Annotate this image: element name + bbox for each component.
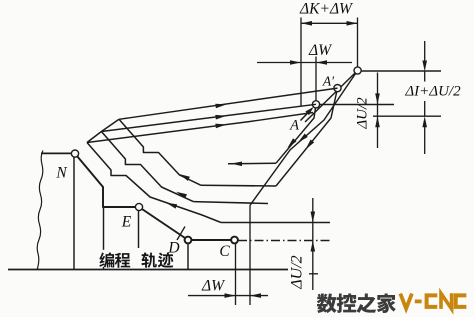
svg-text:A: A xyxy=(289,118,299,134)
dimension line ΔW top xyxy=(257,62,352,64)
return line pass inner corner to below A xyxy=(87,113,313,143)
chain line right of C xyxy=(238,240,330,242)
arrowhead ΔW pointing left at x=316 xyxy=(316,60,327,65)
dim stub below y=71.5 xyxy=(424,72,426,82)
vertical line below contour step F xyxy=(103,207,105,270)
point E circle xyxy=(135,203,142,210)
approach line from S to plunge point xyxy=(250,71,358,206)
tick mark on ΔU/2 bottom dim line xyxy=(309,273,318,275)
extension line x=316 xyxy=(315,57,317,101)
dim line ΔU/2 bottom vertical xyxy=(312,198,314,290)
vertical extension below C xyxy=(235,244,237,306)
horizontal line at start point level y=71 xyxy=(361,70,441,72)
arrowhead down at y=104.4 xyxy=(375,93,380,104)
point A circle xyxy=(312,101,319,108)
arrowhead ΔK+ΔW right xyxy=(347,21,358,26)
svg-text:ΔU/2: ΔU/2 xyxy=(355,97,371,130)
return line to A xyxy=(101,104,316,131)
pass C2 staircase xyxy=(101,132,193,202)
watermark 数控之家 xyxy=(317,293,337,313)
pass C1 bottom line with extension y=222.5 xyxy=(221,222,330,224)
arrowhead right at x=235.5 xyxy=(225,293,236,298)
extension line x=357.5 xyxy=(357,18,359,68)
point A-prime circle xyxy=(334,85,341,92)
pass C3 staircase xyxy=(119,119,201,185)
svg-text:ΔW: ΔW xyxy=(201,278,226,295)
point D circle xyxy=(185,237,192,244)
horizontal line at A level y=104.5 xyxy=(320,104,395,106)
svg-text:ΔK+ΔW: ΔK+ΔW xyxy=(299,1,354,18)
pass C2 bottom line y~200 xyxy=(193,202,268,204)
dim line ΔI+ΔU/2 lower tail xyxy=(424,127,426,154)
programmed contour N-E-D-C xyxy=(75,154,235,240)
arrowhead down at y=71.5 xyxy=(422,61,427,72)
leader line from D xyxy=(177,227,185,241)
dimension line ΔW bottom xyxy=(188,295,268,297)
top edge of workpiece xyxy=(41,152,72,154)
collinear offset line through S A-prime A xyxy=(305,71,358,123)
white backing for text 编程 轨迹 xyxy=(101,250,178,267)
arrowhead ΔW pointing right at x=301 xyxy=(290,60,301,65)
svg-text:ΔW: ΔW xyxy=(308,42,333,59)
text 编程 轨迹 (programmed trajectory) xyxy=(99,252,114,267)
arrowhead up at y=240.5 xyxy=(311,241,316,252)
connector between pass corners C1-C2-C3 xyxy=(87,119,119,142)
horizontal line y=116 xyxy=(373,115,441,117)
pass C1 staircase xyxy=(87,143,221,223)
point N circle xyxy=(71,150,78,157)
dimension line ΔK+ΔW xyxy=(301,22,358,24)
svg-text:ΔU/2: ΔU/2 xyxy=(289,255,306,289)
up-left arrowhead on pass C2 diagonal xyxy=(176,192,187,199)
up-left arrowhead on pass C1 diagonal xyxy=(166,203,177,209)
plunge and extension line x=250 xyxy=(249,205,251,305)
dim line ΔU/2 right vertical xyxy=(377,73,379,149)
svg-text:N: N xyxy=(55,165,68,182)
pass C3 bottom line y~186 xyxy=(201,184,276,187)
svg-text:E: E xyxy=(121,214,132,231)
wavy left edge of workpiece xyxy=(37,151,43,271)
start point S circle xyxy=(354,67,361,74)
arrowhead down-left on A strand xyxy=(287,138,296,148)
arrowhead right on return line 1 xyxy=(215,124,226,129)
leader arrow from label A to point A xyxy=(301,109,313,121)
arrowhead right on return line 2 xyxy=(215,115,226,120)
arrowhead down-left on A-prime strand xyxy=(306,140,315,150)
up-left arrowhead on pass C3 lower diagonal xyxy=(179,174,190,181)
vertical line below N xyxy=(73,154,75,270)
arrowhead up at y=116.2 on x=377.5 xyxy=(375,116,380,127)
extension line x=301 xyxy=(300,18,302,107)
baseline axis xyxy=(8,269,288,271)
dim stub above y=116 xyxy=(424,101,426,116)
svg-text:C: C xyxy=(219,243,230,260)
left arrowhead on bottom line y~163 xyxy=(231,162,242,167)
vertical line below E xyxy=(138,211,140,249)
dim line ΔI+ΔU/2 upper tail xyxy=(424,41,426,61)
watermark V-CNC logo xyxy=(400,293,466,309)
vertical line below D xyxy=(187,244,189,270)
svg-text:A′: A′ xyxy=(322,74,335,89)
point C circle xyxy=(231,237,238,244)
arrowhead left at x=250 xyxy=(250,293,261,298)
approach line from A-prime to pass2 end xyxy=(276,88,338,186)
return line to A-prime xyxy=(119,88,338,119)
pass C3 branch bottom line y~163 xyxy=(228,162,276,165)
arrowhead down at y=222.5 xyxy=(311,212,316,223)
arrowhead ΔK+ΔW left xyxy=(301,21,312,26)
arrowhead up at y=116 xyxy=(422,116,427,127)
arrowhead right on return line 3 xyxy=(215,104,226,109)
svg-text:D: D xyxy=(167,240,179,257)
arrowhead down-left on S strand xyxy=(298,134,308,143)
approach line from A to pass1 end xyxy=(276,104,316,163)
svg-text:ΔI+ΔU/2: ΔI+ΔU/2 xyxy=(404,84,461,100)
